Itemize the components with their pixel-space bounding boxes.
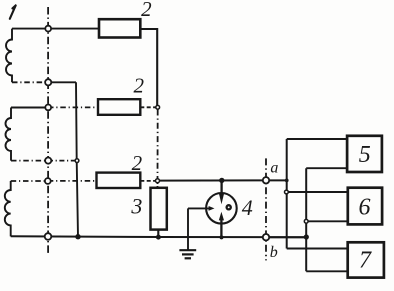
junction dot: neutral bus to bottom bus [75,234,80,239]
terminal B [45,79,51,85]
svg-text:7: 7 [359,248,372,274]
wire row C: winding W2 top to terminal C [11,107,48,109]
wire: resistor 2a to common point (corner down) [140,29,157,106]
measurement chain line a-b (vertical dash-dot) [265,158,267,260]
bottom bus wire (neutral, row F) [11,235,307,238]
indicator 4 top lead with arrow [220,180,222,195]
bus 1 (a signal) vertical [286,139,288,249]
neutral bus vertical wire [76,82,78,236]
junction dot: a wire on bus 1 [285,179,289,183]
unit 5 box [347,136,382,172]
machine boundary chain line (vertical, left) [47,7,49,253]
resistor 3 [151,188,167,230]
resistor 2b [98,99,140,115]
wire row D: winding W2 bottom to terminal D (dash-dot) [11,160,48,162]
wire: bus 1 bottom to unit 7 [287,248,348,250]
node a [263,177,269,183]
unit 7 box [348,242,384,277]
svg-text:2: 2 [134,74,145,98]
wire row A: winding W1 top to resistor 2a [12,28,99,30]
wire: resistor 3 top stub [157,181,159,188]
wire row D: terminal D to neutral bus (dash-dot) [48,160,77,162]
wire: node a to bus 1 [266,179,287,181]
ground stub wire [187,208,189,250]
unit 6 box [348,188,382,225]
svg-text:6: 6 [359,195,371,221]
svg-text:2: 2 [132,151,143,175]
svg-text:2: 2 [141,0,152,21]
wire: bus 2 top to unit 5 [306,167,347,169]
svg-text:b: b [270,244,278,261]
terminal F [45,233,52,240]
wire: bus 1 top to unit 5 [287,138,347,140]
junction dot: resistor 3 to bottom bus [156,235,161,240]
winding W1 coil [6,29,12,83]
wire row B: winding W1 bottom to terminal B (dash-dot) [12,81,48,83]
wire row E: terminal E to resistor 2c (dash-dot) [48,180,97,182]
svg-text:5: 5 [359,142,371,168]
terminal C [45,105,51,111]
wire: resistor 3 bottom stub [157,230,159,237]
wire: bus 2 bottom to unit 7 [306,270,348,272]
terminal D [45,158,51,164]
junction dot: b wire on bus 2 [304,234,309,239]
wire: bus 1 to unit 6 [287,191,348,193]
wire: resistor 2c right lead [140,180,156,182]
indicator 4 electrode dot [227,205,231,209]
wire row E main: junction E to node a [158,179,267,181]
resistor 2c [97,173,141,188]
junction node: bus 2 to unit 6 wire [304,219,308,223]
winding W3 coil [5,181,11,236]
winding W2 coil [6,108,12,161]
wire row C: terminal C to resistor 2b (dash-dot) [48,106,98,108]
indicator 4 bottom lead with arrow [220,220,222,238]
label 1 (windings) [10,5,16,18]
indicator 4 body (circle) [206,193,237,224]
node b [263,234,269,240]
ground symbol [179,249,196,251]
svg-text:a: a [270,160,278,177]
junction node: neutral bus at row D [75,159,79,163]
common link of resistors (dash-dot vertical) [157,110,159,179]
wire row E: winding W3 top to terminal E (dashed) [11,180,48,182]
junction dot: indicator bottom lead at bus [219,235,223,239]
terminal E [45,178,51,184]
wire: node b to bus 2 [266,236,306,238]
wire row B: terminal B to neutral bus [48,81,76,83]
junction node E (resistor 3 top) [156,179,160,183]
node: resistors common point [156,105,160,109]
resistor 2a [99,19,140,37]
junction dot: row E at indicator top [219,178,224,183]
wire: bus 2 to unit 6 [306,220,348,222]
svg-text:4: 4 [242,195,253,220]
bus 2 (b signal) vertical [305,168,307,271]
junction node: bus 1 to unit 6 wire [285,190,289,194]
terminal A [45,26,51,32]
svg-text:3: 3 [130,194,142,219]
wire: resistor 2b right lead (dashes) [140,106,156,108]
indicator 4 left lead with arrow (from ground) [188,207,210,209]
